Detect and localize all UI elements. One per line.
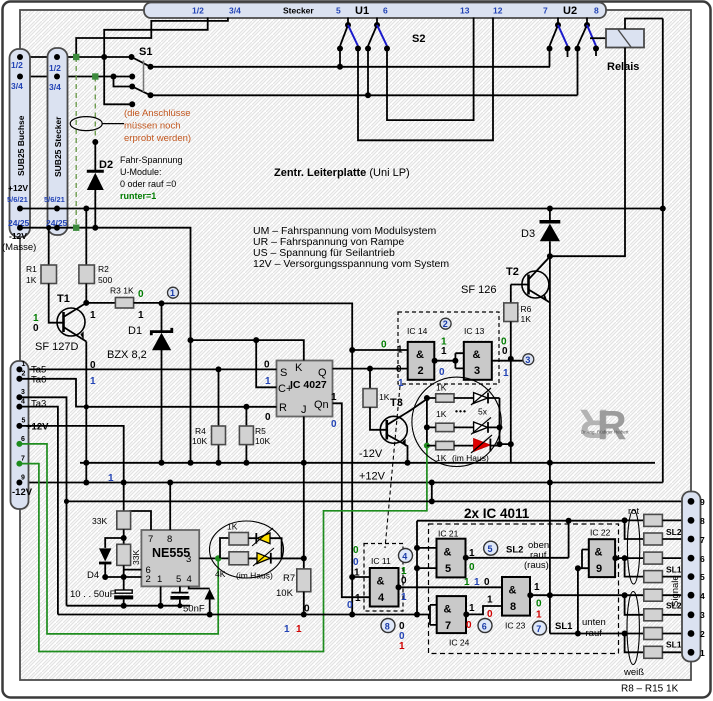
S input wire from Ta5 bbox=[19, 368, 276, 370]
svg-text:R8 – R15 1K: R8 – R15 1K bbox=[621, 684, 679, 695]
relay Relais bbox=[606, 29, 644, 48]
svg-text:J: J bbox=[301, 404, 307, 416]
svg-text:1: 1 bbox=[534, 582, 540, 593]
svg-text:IC 22: IC 22 bbox=[590, 528, 611, 538]
svg-text:1K: 1K bbox=[436, 409, 447, 419]
svg-text:&: & bbox=[444, 604, 452, 616]
svg-text:SL1: SL1 bbox=[666, 565, 682, 575]
svg-text:1: 1 bbox=[469, 548, 475, 559]
svg-text:2: 2 bbox=[418, 365, 424, 377]
NE555 pin8 to +12V rail bbox=[169, 483, 171, 531]
svg-text:1: 1 bbox=[138, 310, 144, 321]
svg-text:(die Anschlüsse: (die Anschlüsse bbox=[124, 108, 191, 119]
svg-text:Qn: Qn bbox=[314, 399, 329, 411]
dashed box IC14/IC13 bbox=[398, 312, 499, 384]
svg-text:8: 8 bbox=[510, 601, 516, 613]
node 1 circled bbox=[159, 300, 165, 306]
svg-text:5: 5 bbox=[336, 6, 341, 16]
resistor R14 bbox=[644, 628, 663, 640]
svg-text:SF 126: SF 126 bbox=[461, 284, 496, 296]
svg-text:5/6/21: 5/6/21 bbox=[44, 195, 65, 204]
svg-text:runter=1: runter=1 bbox=[120, 191, 156, 201]
svg-text:R2: R2 bbox=[98, 264, 109, 274]
svg-text:5: 5 bbox=[488, 544, 493, 554]
dashed box IC11 bbox=[364, 544, 403, 612]
svg-text:0: 0 bbox=[331, 419, 337, 430]
wire into relay coil bbox=[590, 37, 606, 39]
long vertical X1 from relay to +12V rail bbox=[662, 19, 664, 483]
svg-text:D2: D2 bbox=[99, 159, 113, 171]
svg-text:Signale: Signale bbox=[670, 575, 681, 607]
svg-text:8: 8 bbox=[167, 534, 172, 545]
svg-text:(Masse): (Masse) bbox=[2, 242, 36, 253]
top connector bar Stecker bbox=[144, 3, 606, 19]
watermark logo RR bbox=[579, 401, 629, 448]
resistor R4 10K bbox=[218, 369, 220, 462]
gate4 input1 wire bbox=[352, 576, 370, 578]
svg-text:T3: T3 bbox=[390, 397, 403, 409]
svg-text:Relais: Relais bbox=[607, 61, 639, 73]
big circle around LED array bbox=[412, 377, 501, 466]
svg-text:1: 1 bbox=[487, 595, 493, 606]
svg-text:0: 0 bbox=[466, 620, 472, 631]
resistor 33K lower (vertical label) bbox=[117, 544, 131, 565]
svg-text:R6: R6 bbox=[521, 304, 532, 314]
LED right rail bbox=[500, 398, 511, 444]
svg-text:IC 13: IC 13 bbox=[464, 326, 485, 336]
svg-text:Dr.-Ing. Rüdiger Heibert: Dr.-Ing. Rüdiger Heibert bbox=[581, 430, 629, 435]
svg-text:SF 127D: SF 127D bbox=[35, 341, 78, 353]
svg-text:2: 2 bbox=[700, 629, 705, 639]
gate5 output SL2 wire bbox=[466, 521, 569, 558]
NE555 pin4 with arrow to signal rail bbox=[189, 586, 210, 588]
1K resistor to T3 base bbox=[369, 369, 371, 389]
resistor R5 10K bbox=[245, 407, 247, 463]
svg-text:13: 13 bbox=[460, 6, 470, 16]
svg-text:U-Module:: U-Module: bbox=[120, 167, 162, 177]
svg-text:1: 1 bbox=[90, 310, 96, 321]
svg-text:5x: 5x bbox=[478, 407, 488, 417]
svg-text:9: 9 bbox=[700, 497, 705, 507]
svg-text:8: 8 bbox=[700, 516, 705, 526]
cable ellipse rot bbox=[627, 510, 639, 584]
svg-text:1: 1 bbox=[22, 361, 26, 368]
big dashed box around 4011 gates bbox=[429, 524, 619, 654]
svg-text:1: 1 bbox=[464, 577, 470, 588]
svg-text:1/2: 1/2 bbox=[11, 60, 23, 70]
svg-text:10K: 10K bbox=[276, 588, 294, 599]
green dashed link 1 bbox=[75, 57, 77, 228]
svg-text:NE555: NE555 bbox=[152, 546, 190, 560]
Q wire to IC14 bbox=[333, 368, 408, 370]
svg-text:IC 14: IC 14 bbox=[407, 326, 428, 336]
svg-text:D1: D1 bbox=[128, 325, 142, 337]
svg-text:5: 5 bbox=[22, 418, 26, 425]
svg-text:+12V: +12V bbox=[26, 422, 49, 433]
svg-text:5/6/21: 5/6/21 bbox=[7, 195, 28, 204]
dashed diagonal to IC11 bbox=[385, 386, 400, 548]
IC 4027 bbox=[277, 361, 333, 417]
node 5 circled bbox=[484, 541, 498, 555]
gate IC13 &3 bbox=[464, 342, 492, 380]
svg-text:R5: R5 bbox=[255, 426, 266, 436]
svg-text:rauf: rauf bbox=[586, 628, 603, 639]
SUB25 Stecker connector bbox=[48, 48, 68, 235]
svg-text:4K: 4K bbox=[215, 569, 226, 579]
svg-text:3/4: 3/4 bbox=[229, 6, 241, 16]
svg-text:S1: S1 bbox=[139, 46, 152, 58]
row 8 wire + U link to row 7 bbox=[622, 517, 628, 523]
Ta pushbutton connector bbox=[11, 361, 29, 509]
svg-text:1: 1 bbox=[398, 378, 404, 389]
svg-text:1/2: 1/2 bbox=[192, 6, 204, 16]
svg-text:0: 0 bbox=[401, 576, 407, 587]
svg-text:1: 1 bbox=[331, 392, 337, 403]
NE555 pin1 down bbox=[160, 586, 162, 605]
svg-text:SL1: SL1 bbox=[666, 640, 682, 650]
svg-text:•••: ••• bbox=[455, 406, 467, 416]
D2 note text bbox=[120, 155, 183, 201]
S2 unit 1 (pin5) bbox=[347, 18, 349, 25]
gate IC14 &2 bbox=[408, 342, 435, 380]
svg-text:T1: T1 bbox=[57, 293, 70, 305]
svg-text:Fahr-Spannung: Fahr-Spannung bbox=[120, 155, 183, 165]
svg-text:(im Haus): (im Haus) bbox=[236, 571, 273, 581]
svg-text:+12V: +12V bbox=[8, 183, 28, 193]
NE555 ground rail bbox=[67, 605, 191, 607]
svg-text:Q: Q bbox=[318, 367, 327, 379]
svg-text:&: & bbox=[509, 585, 517, 597]
Ta pin5 +12V wire bbox=[19, 426, 123, 483]
svg-text:1: 1 bbox=[700, 648, 705, 658]
resistor R13 bbox=[644, 609, 663, 621]
R input wire bbox=[86, 406, 276, 408]
svg-text:0: 0 bbox=[484, 577, 490, 588]
svg-text:2: 2 bbox=[22, 371, 26, 378]
resistor R9 bbox=[644, 533, 663, 545]
rail A (-12V) bbox=[80, 462, 655, 464]
svg-text:10 . . 50uF: 10 . . 50uF bbox=[70, 589, 116, 600]
svg-text:S: S bbox=[280, 367, 287, 379]
svg-text:1/2: 1/2 bbox=[49, 63, 61, 73]
svg-text:6: 6 bbox=[700, 554, 705, 564]
svg-text:1: 1 bbox=[441, 346, 447, 357]
svg-text:5: 5 bbox=[700, 572, 705, 582]
capacitor 50nF bbox=[179, 586, 181, 592]
svg-text:3/4: 3/4 bbox=[11, 81, 23, 91]
svg-text:1: 1 bbox=[170, 288, 175, 298]
svg-text:0: 0 bbox=[138, 289, 144, 300]
svg-text:T2: T2 bbox=[506, 266, 519, 278]
svg-text:0: 0 bbox=[439, 367, 445, 378]
SUB25 Buchse connector bbox=[10, 49, 31, 237]
svg-text:1K: 1K bbox=[521, 314, 532, 324]
svg-text:1: 1 bbox=[355, 593, 361, 604]
node 7 circled bbox=[533, 621, 547, 635]
svg-text:unten: unten bbox=[582, 617, 606, 628]
resistor R2 500 bbox=[83, 206, 89, 212]
svg-text:-12V: -12V bbox=[9, 231, 27, 241]
svg-text:R7: R7 bbox=[283, 573, 295, 584]
svg-text:4: 4 bbox=[700, 591, 705, 601]
svg-text:7: 7 bbox=[21, 456, 25, 463]
wire from bar pin 3/4 down-left to green node bbox=[76, 18, 228, 57]
NE555 pin3 output bbox=[199, 557, 304, 559]
resistor R8 bbox=[644, 514, 663, 526]
IC14 in1 wire bbox=[352, 349, 408, 351]
resistor R3 1K bbox=[86, 302, 115, 304]
gate8 output to rows 4/3 bbox=[530, 594, 625, 596]
svg-text:-12V: -12V bbox=[12, 487, 33, 498]
svg-text:SUB25 Stecker: SUB25 Stecker bbox=[53, 116, 63, 177]
svg-text:1: 1 bbox=[503, 368, 509, 379]
svg-text:SUB25 Buchse: SUB25 Buchse bbox=[16, 115, 26, 176]
resistor R1 1K bbox=[46, 225, 51, 230]
Ta pin3 wire down to NE555 ground rail bbox=[19, 397, 66, 605]
Ta6 wire bbox=[19, 379, 86, 407]
svg-text:8: 8 bbox=[594, 6, 599, 16]
svg-text:Stecker: Stecker bbox=[283, 6, 314, 16]
svg-text:1: 1 bbox=[284, 624, 290, 635]
svg-text:0: 0 bbox=[265, 412, 271, 423]
svg-text:0: 0 bbox=[469, 562, 475, 573]
diode D4 bbox=[105, 538, 124, 548]
svg-text:&: & bbox=[377, 576, 385, 588]
svg-text:1K: 1K bbox=[436, 453, 447, 463]
svg-text:0: 0 bbox=[264, 360, 270, 371]
svg-text:2: 2 bbox=[443, 319, 448, 329]
diode D3 bbox=[547, 206, 553, 212]
svg-text:0: 0 bbox=[381, 340, 387, 351]
svg-text:3: 3 bbox=[700, 610, 705, 620]
relay top pin wire to X1 bbox=[625, 19, 663, 30]
K / C wires bbox=[191, 340, 304, 360]
svg-text:Ta3: Ta3 bbox=[31, 399, 46, 410]
svg-text:4: 4 bbox=[21, 399, 25, 406]
diode D2 bbox=[92, 139, 98, 145]
vertical feed for gates 5 and 7 bbox=[416, 521, 418, 615]
Qn wire down to gate 4 bbox=[333, 403, 370, 597]
NE555 timer bbox=[141, 530, 199, 586]
S2 unit 2 (pin6) bbox=[376, 18, 378, 25]
svg-text:R4: R4 bbox=[195, 426, 206, 436]
svg-text:D3: D3 bbox=[521, 228, 535, 240]
svg-text:weiß: weiß bbox=[623, 667, 644, 678]
wire from bar pin 1/2 down-left to S1 lower contact bbox=[104, 18, 208, 105]
svg-text:7: 7 bbox=[148, 534, 153, 545]
wire row 24/25 to vertical bbox=[20, 228, 191, 463]
svg-text:R: R bbox=[597, 402, 627, 448]
NE555 pin2/6 wire bbox=[105, 576, 141, 578]
wire L2 from S1 out2 bbox=[151, 94, 578, 96]
svg-text:7: 7 bbox=[536, 624, 541, 634]
IC14 out to IC13 inputs bbox=[434, 353, 464, 368]
node 8 circled bbox=[381, 619, 395, 633]
svg-text:BZX 8,2: BZX 8,2 bbox=[107, 349, 147, 361]
green dashed link 2 bbox=[94, 77, 96, 143]
svg-text:1: 1 bbox=[108, 473, 114, 484]
svg-text:1: 1 bbox=[399, 641, 405, 652]
resistor R15 bbox=[644, 646, 663, 658]
LED row 1 bbox=[436, 394, 454, 402]
svg-text:0: 0 bbox=[304, 604, 310, 615]
svg-text:IC 11: IC 11 bbox=[371, 556, 391, 566]
Ta3 pin4 wire down to signal rail2 bbox=[19, 407, 58, 615]
LED array left rail bbox=[426, 398, 428, 446]
svg-text:R3 1K: R3 1K bbox=[110, 286, 134, 296]
svg-text:4: 4 bbox=[187, 574, 192, 585]
orange note text bbox=[124, 108, 191, 144]
svg-text:&: & bbox=[595, 547, 603, 559]
svg-text:1: 1 bbox=[354, 568, 360, 579]
wire W1 row 1/2 from SUB25 to S1 bbox=[20, 56, 132, 58]
svg-text:SL2: SL2 bbox=[506, 545, 523, 556]
rail B (+12V) from Ta pin9 to X1 bbox=[19, 482, 662, 484]
svg-text:1: 1 bbox=[265, 376, 271, 387]
svg-text:9: 9 bbox=[21, 475, 25, 482]
resistor 33K upper bbox=[123, 483, 125, 512]
svg-text:1: 1 bbox=[90, 376, 96, 387]
svg-text:5: 5 bbox=[176, 574, 181, 585]
node 2 circled bbox=[440, 318, 451, 329]
svg-text:3: 3 bbox=[525, 355, 530, 365]
svg-text:S2: S2 bbox=[412, 33, 425, 45]
svg-text:&: & bbox=[416, 349, 424, 361]
svg-text:12V – Versorgungsspannung vom: 12V – Versorgungsspannung vom System bbox=[253, 258, 449, 270]
svg-text:1K: 1K bbox=[436, 383, 447, 393]
svg-text:-12V: -12V bbox=[359, 448, 383, 460]
svg-text:1K: 1K bbox=[26, 275, 37, 285]
indicator ellipse bbox=[210, 521, 284, 578]
svg-text:1: 1 bbox=[536, 610, 542, 621]
svg-text:3: 3 bbox=[186, 554, 191, 565]
gate4 output wire to gate8 bbox=[399, 586, 503, 588]
resistor R10 bbox=[644, 552, 663, 564]
svg-text:rot: rot bbox=[628, 506, 639, 517]
indicator 1K + LED row bbox=[220, 538, 229, 558]
svg-text:12: 12 bbox=[493, 6, 503, 16]
resistor R11 bbox=[644, 571, 663, 583]
svg-text:IC 24: IC 24 bbox=[449, 638, 470, 648]
svg-text:1: 1 bbox=[296, 624, 302, 635]
svg-text:7: 7 bbox=[543, 6, 548, 16]
svg-text:R: R bbox=[279, 402, 287, 414]
svg-text:0: 0 bbox=[353, 545, 359, 556]
wire to right connector pin9 bbox=[67, 500, 692, 502]
J pin down to rail and R7 bbox=[303, 417, 305, 569]
indicator 4K + LED row bbox=[229, 552, 248, 565]
svg-text:Ta6: Ta6 bbox=[31, 375, 46, 386]
svg-text:33K: 33K bbox=[131, 550, 141, 565]
svg-text:7: 7 bbox=[700, 535, 705, 545]
svg-text:10K: 10K bbox=[192, 436, 207, 446]
svg-text:3: 3 bbox=[474, 365, 480, 377]
svg-text:U1: U1 bbox=[355, 5, 369, 17]
LED row 3 red bbox=[436, 441, 454, 449]
node 4 circled bbox=[399, 549, 413, 563]
svg-text:1: 1 bbox=[469, 603, 475, 614]
resistor R6 1K bbox=[510, 285, 512, 303]
svg-text:5: 5 bbox=[445, 563, 451, 575]
svg-text:8: 8 bbox=[385, 621, 390, 631]
svg-text:SL1: SL1 bbox=[555, 621, 573, 632]
gate9 output to rows 6/5 bbox=[615, 557, 625, 559]
svg-text:7: 7 bbox=[445, 620, 451, 632]
svg-text:1K: 1K bbox=[227, 522, 238, 532]
green wire from Ta pin6 bbox=[19, 444, 218, 634]
cable ellipse weiss bbox=[627, 592, 639, 665]
svg-text:IC 4027: IC 4027 bbox=[290, 379, 327, 391]
signal rail2 (8) bbox=[58, 614, 417, 616]
legend text bbox=[253, 225, 449, 270]
T1 emitter vertical down to rails bbox=[85, 342, 87, 483]
svg-text:D4: D4 bbox=[87, 570, 99, 581]
node1 wire right and long vertical X3 bbox=[162, 303, 353, 614]
svg-text:500: 500 bbox=[98, 275, 112, 285]
svg-text:&: & bbox=[473, 349, 481, 361]
svg-text:+12V: +12V bbox=[359, 471, 386, 483]
svg-text:SL2: SL2 bbox=[666, 527, 682, 537]
svg-text:2x IC 4011: 2x IC 4011 bbox=[464, 506, 530, 521]
wire row 5/6/21 long to D3 bbox=[20, 208, 663, 210]
svg-text:0 oder rauf =0: 0 oder rauf =0 bbox=[120, 179, 176, 189]
gate9 input feed from SL1 bbox=[578, 550, 589, 634]
node 6 circled bbox=[478, 619, 492, 633]
svg-text:0: 0 bbox=[353, 557, 359, 568]
svg-text:6: 6 bbox=[482, 621, 487, 631]
svg-text:6: 6 bbox=[383, 6, 388, 16]
relay bottom pin wire down to D3 anode row bbox=[550, 48, 625, 257]
svg-text:U2: U2 bbox=[563, 5, 577, 17]
svg-text:0: 0 bbox=[347, 600, 353, 611]
annotation ellipse bbox=[70, 117, 102, 131]
row 4 wire + U link to row 3 bbox=[622, 592, 628, 598]
svg-text:0: 0 bbox=[396, 364, 402, 375]
svg-text:2: 2 bbox=[146, 574, 151, 585]
svg-text:0: 0 bbox=[536, 599, 542, 610]
svg-text:0: 0 bbox=[502, 346, 508, 357]
row 2 wire + U link to row 1 bbox=[622, 631, 628, 637]
resistor R12 bbox=[644, 589, 663, 601]
svg-text:1: 1 bbox=[397, 345, 403, 356]
svg-text:&: & bbox=[444, 547, 452, 559]
resistor R7 10K bbox=[297, 569, 311, 592]
LED row 2 bbox=[436, 423, 454, 431]
zener diode D1 BZX 8,2 bbox=[161, 303, 163, 331]
wire W2 row 3/4 from SUB25 bbox=[20, 76, 132, 78]
svg-text:1: 1 bbox=[157, 574, 162, 585]
svg-text:IC 23: IC 23 bbox=[505, 621, 526, 631]
branch to S1 pole2 bbox=[114, 77, 133, 87]
svg-text:3: 3 bbox=[21, 389, 25, 396]
svg-text:müssen noch: müssen noch bbox=[124, 121, 181, 132]
svg-text:0: 0 bbox=[33, 323, 39, 334]
svg-text:0: 0 bbox=[487, 609, 493, 620]
capacitor 50uF bbox=[123, 577, 125, 590]
gate7 output to gate8 in2 bbox=[466, 606, 502, 614]
svg-text:10K: 10K bbox=[255, 436, 270, 446]
svg-text:4: 4 bbox=[378, 592, 385, 604]
svg-text:(raus): (raus) bbox=[524, 560, 549, 571]
gate IC11 &4 bbox=[370, 568, 399, 607]
rot-row feed wire bbox=[417, 520, 625, 522]
row 6 wire + U link to row 5 bbox=[622, 555, 628, 561]
gate IC23 &8 bbox=[502, 577, 530, 616]
svg-text:4: 4 bbox=[402, 551, 407, 561]
svg-text:IC 21: IC 21 bbox=[438, 529, 459, 539]
right connector box bbox=[682, 492, 701, 662]
IC13 output to node 3 bbox=[492, 360, 523, 362]
